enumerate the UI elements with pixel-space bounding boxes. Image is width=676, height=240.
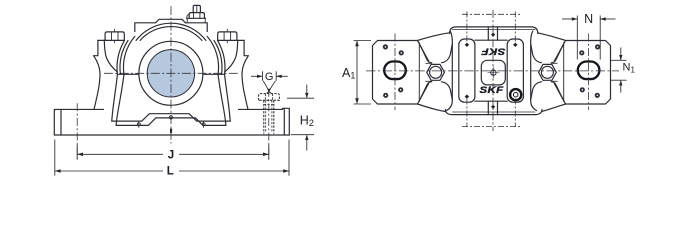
oil dot strip right top <box>513 43 517 47</box>
dimension J <box>77 145 269 160</box>
base centre hole <box>169 116 172 119</box>
left neck lower echo <box>420 84 429 100</box>
cap bolt strip right <box>507 39 523 102</box>
thread runout tick <box>264 103 274 105</box>
svg-text:J: J <box>168 150 174 162</box>
centrelines front view <box>77 6 269 161</box>
cap centre hole crosshair <box>488 67 500 79</box>
cap bolt centreline left <box>466 12 468 43</box>
right neck outer contour bottom <box>542 104 566 112</box>
cap chamfer arc right <box>214 40 222 74</box>
cap bolt right (head side view) <box>218 32 237 40</box>
left foot plate outline <box>373 41 418 105</box>
cap body bottom chamfer line <box>453 111 536 113</box>
split line right <box>204 73 225 75</box>
horizontal centreline <box>104 72 239 74</box>
cap bolt left (head side view) <box>105 32 124 40</box>
stud nut top chamfer <box>267 92 272 94</box>
cap bottom tab <box>488 101 497 114</box>
cap body bottom edge <box>445 110 542 115</box>
centre mark bar below base <box>170 129 172 133</box>
cap bolt hex right <box>539 64 557 80</box>
cap bolt circle left <box>430 66 442 78</box>
left neck lower <box>418 82 432 104</box>
cap body top chamfer line <box>453 29 536 31</box>
right neck upper <box>551 41 565 63</box>
cap chamfer arc left <box>120 40 128 74</box>
left neck outer contour top <box>418 33 450 41</box>
base relief lower step line <box>116 118 226 126</box>
right plate inner edge <box>563 43 565 102</box>
bearing seat circle <box>139 41 203 105</box>
base relief upper step line <box>112 114 230 121</box>
housing side wall left <box>94 40 100 109</box>
left neck to cap lower <box>442 82 453 111</box>
cap mid arc left <box>123 36 134 74</box>
right neck lower echo <box>554 84 563 100</box>
base right end block <box>283 108 290 135</box>
split line left <box>117 73 138 75</box>
dowel pin left <box>137 123 140 126</box>
oil dot top tab <box>491 33 495 37</box>
svg-text:L: L <box>167 166 174 178</box>
foot slot right (bold) <box>578 62 600 80</box>
plate hole left 3 <box>384 94 387 97</box>
cap inner chamfer ring arc <box>140 27 202 41</box>
housing side wall right <box>242 40 248 109</box>
oil dot strip left bottom <box>465 94 469 98</box>
housing rib line right outer <box>225 74 231 121</box>
shoulder right <box>218 39 245 41</box>
left neck upper <box>418 41 432 63</box>
oil dot strip left top <box>465 43 469 47</box>
slot centreline left <box>394 34 396 111</box>
cap waist edge left <box>451 44 453 100</box>
cap bolt centreline right <box>514 12 516 43</box>
right neck to cap upper <box>531 31 542 63</box>
stud nut outline <box>259 94 280 101</box>
svg-text:G: G <box>265 71 274 83</box>
dimension N1 <box>611 48 627 93</box>
svg-text:N: N <box>584 12 593 26</box>
plate hole right 1 <box>596 45 599 48</box>
svg-text:SKF: SKF <box>479 86 503 95</box>
slot centreline right <box>588 34 590 111</box>
cap centre hole <box>491 70 496 75</box>
oil hole dots (diamonds) <box>465 33 518 109</box>
grease nipple top view (bold ring) <box>510 89 521 100</box>
right foot plate outline <box>566 41 611 105</box>
base left end flange <box>54 109 56 135</box>
plate hole right 2 <box>580 51 583 54</box>
left neck outer contour bottom <box>418 104 446 112</box>
cap bolt link line bottom <box>462 126 522 128</box>
cap dome arc <box>136 23 206 40</box>
cap waist edge right <box>530 44 532 100</box>
strip connector line bottom <box>475 100 507 102</box>
left neck upper echo <box>420 45 429 61</box>
stud shank <box>264 100 274 134</box>
plate hole left 2 <box>400 51 403 54</box>
strip connector line top <box>475 39 507 41</box>
cap bolt strips <box>459 39 524 102</box>
SKF logo bottom <box>479 86 503 95</box>
base bottom <box>54 134 289 136</box>
cap bolt link line top <box>462 13 522 15</box>
dimension N <box>562 16 616 60</box>
cap outer arc left <box>117 40 124 74</box>
cap top pad <box>135 19 207 31</box>
dimension L <box>55 140 289 176</box>
cap top tab <box>488 27 497 40</box>
cap centre pad <box>481 60 505 85</box>
vertical centreline <box>170 6 172 144</box>
cap bolt strip left <box>459 39 475 102</box>
shoulder left <box>98 39 125 41</box>
SKF logo top (rotated) <box>481 46 505 55</box>
attachment stud (hidden lines) <box>259 92 280 134</box>
centrelines top view <box>366 10 619 131</box>
left neck to cap upper <box>442 31 453 63</box>
housing rib line left inner <box>116 74 124 125</box>
left plate inner edge <box>418 43 420 102</box>
right neck lower <box>551 82 565 104</box>
foot bolt centreline left <box>76 103 78 160</box>
stud thread lines <box>266 100 272 132</box>
right neck upper echo <box>554 45 563 61</box>
grease nipple <box>193 5 200 12</box>
dimension H2 <box>287 85 314 151</box>
cap bolt circle right <box>541 66 553 78</box>
bolt boss inner edge left <box>104 40 117 71</box>
hex boss flats left <box>426 63 432 81</box>
horizontal centreline <box>366 70 619 72</box>
right neck to cap lower <box>531 82 542 111</box>
housing rib line left outer <box>112 74 118 121</box>
dowel pin right <box>202 123 205 126</box>
bearing bore (shaft seat, blue fill) <box>147 50 194 97</box>
housing rib line right inner <box>218 74 226 125</box>
plate hole right 4 <box>581 88 584 91</box>
plate hole left 4 <box>399 88 402 91</box>
dimension G <box>251 71 288 89</box>
base top surface left <box>54 108 103 110</box>
oil dot bottom tab <box>491 105 495 109</box>
cap mid arc right <box>207 36 218 74</box>
base top surface right <box>239 108 283 110</box>
plate hole left 1 <box>384 45 387 48</box>
right neck outer contour top <box>538 33 566 41</box>
plate hole right 3 <box>596 94 599 97</box>
foot slot left (bold) <box>384 62 406 80</box>
cap outer arc right <box>218 40 225 74</box>
dimension A1 <box>354 41 372 105</box>
stud centreline right foot <box>268 89 270 161</box>
cap body top edge <box>450 27 538 34</box>
cap centreline vertical <box>492 10 494 131</box>
bolt boss inner edge right <box>225 40 238 71</box>
hex boss flats right <box>552 63 558 81</box>
cap bolt hex left <box>427 64 445 80</box>
